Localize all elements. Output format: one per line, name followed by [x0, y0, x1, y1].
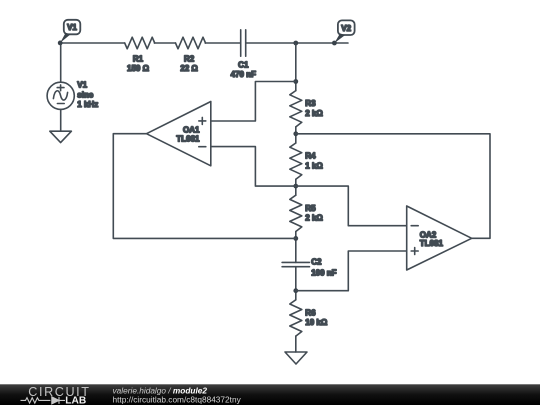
- label R1: [127, 55, 150, 73]
- svg-text:150 Ω: 150 Ω: [127, 64, 150, 73]
- resistor R2: [176, 37, 206, 49]
- wire J5 to OA2 plus input: [296, 251, 407, 291]
- flag V2: [334, 20, 354, 43]
- label R6: [305, 308, 328, 327]
- resistor R5: [290, 195, 302, 231]
- label OA2: [420, 230, 444, 248]
- label R4: [305, 152, 323, 171]
- svg-text:1 kHz: 1 kHz: [77, 100, 98, 109]
- svg-text:TL081: TL081: [176, 135, 200, 144]
- node dot J4: [293, 236, 298, 241]
- wire V1 column down to source: [60, 43, 62, 82]
- svg-text:R6: R6: [305, 308, 316, 317]
- wire J1 to OA1 plus input: [211, 82, 296, 122]
- wire J2 feedback to OA2 output: [296, 134, 490, 239]
- svg-text:TL081: TL081: [420, 239, 444, 248]
- wire mid column top to R3: [295, 43, 297, 91]
- svg-text:C2: C2: [311, 258, 322, 267]
- node dot top mid: [293, 41, 298, 46]
- svg-text:R3: R3: [305, 99, 316, 108]
- capacitor C2: [282, 262, 309, 266]
- wire source to ground: [60, 109, 62, 131]
- footer credit text: [113, 386, 242, 405]
- svg-text:OA2: OA2: [420, 230, 437, 239]
- wire between R2 and C1: [205, 42, 240, 44]
- svg-text:sine: sine: [77, 90, 94, 99]
- svg-text:V2: V2: [341, 24, 351, 33]
- node dot J2: [293, 131, 298, 136]
- svg-text:2 kΩ: 2 kΩ: [305, 109, 323, 118]
- wire R5 to C2: [295, 232, 297, 263]
- wire J3 to OA2 minus input: [296, 186, 407, 226]
- node dot V1: [58, 41, 63, 46]
- label R3: [305, 99, 323, 118]
- wire J3 to OA1 minus input: [211, 147, 296, 187]
- wire R3 to R4: [295, 127, 297, 143]
- wire between R1 and R2: [154, 42, 175, 44]
- wire OA1 output feedback: [113, 134, 295, 239]
- node dot J3: [293, 184, 298, 189]
- label OA1: [176, 126, 200, 144]
- wire top from V1 node to R1: [61, 42, 125, 44]
- ground under V1: [50, 131, 72, 142]
- ground under R6: [285, 352, 307, 364]
- svg-text:100 nF: 100 nF: [311, 269, 336, 278]
- label R5: [305, 204, 323, 223]
- svg-text:OA1: OA1: [183, 126, 200, 135]
- node dot J1: [293, 79, 298, 84]
- wire from C1 to V2 node: [246, 42, 348, 44]
- svg-text:R4: R4: [305, 152, 316, 161]
- label R2: [180, 55, 198, 73]
- voltage source V1: [47, 82, 74, 109]
- svg-text:1 kΩ: 1 kΩ: [305, 161, 323, 170]
- label C2: [311, 258, 336, 278]
- resistor R1: [125, 37, 155, 49]
- label V1 source: [77, 81, 98, 110]
- svg-text:470 nF: 470 nF: [231, 70, 256, 79]
- svg-text:C1: C1: [238, 61, 249, 70]
- svg-text:R5: R5: [305, 204, 316, 213]
- svg-text:V1: V1: [77, 81, 87, 90]
- capacitor C1: [241, 30, 246, 56]
- node dot J5: [293, 288, 298, 293]
- svg-text:R1: R1: [133, 55, 144, 64]
- resistor R3: [290, 91, 302, 127]
- wire C2 to R6: [295, 267, 297, 300]
- flag V1: [60, 20, 80, 43]
- node dot V2: [332, 41, 337, 46]
- svg-text:10 kΩ: 10 kΩ: [305, 318, 328, 327]
- wire R4 to R5: [295, 179, 297, 195]
- svg-text:V1: V1: [67, 23, 77, 32]
- svg-text:http://circuitlab.com/c8tq8843: http://circuitlab.com/c8tq884372tny: [113, 394, 242, 404]
- resistor R4: [290, 143, 302, 179]
- svg-text:2 kΩ: 2 kΩ: [305, 214, 323, 223]
- op-amp OA2: [407, 206, 472, 270]
- svg-text:LAB: LAB: [65, 396, 86, 405]
- svg-text:22 Ω: 22 Ω: [180, 64, 198, 73]
- label C1: [231, 61, 256, 79]
- wire R6 to ground: [295, 336, 297, 352]
- op-amp OA1: [147, 102, 211, 166]
- resistor R6: [290, 300, 302, 336]
- footer bar: [0, 384, 540, 405]
- circuitlab logo: [21, 385, 91, 405]
- svg-text:R2: R2: [184, 55, 195, 64]
